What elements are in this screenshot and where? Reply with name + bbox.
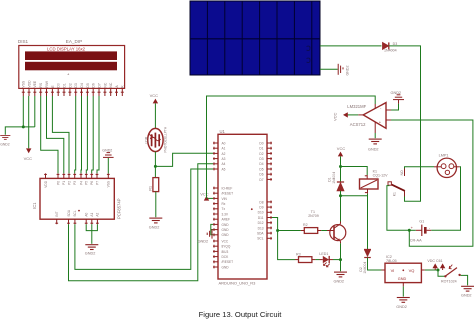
- wire divider to Arduino A2: [155, 153, 213, 166]
- svg-text:VIN: VIN: [222, 197, 228, 201]
- ground GND2 at Arduino left: [198, 229, 212, 243]
- svg-text:VSS: VSS: [22, 80, 26, 88]
- svg-text:ACS712: ACS712: [350, 122, 366, 127]
- svg-text:LMP1: LMP1: [439, 153, 449, 157]
- Arduino pin D0: [259, 141, 272, 145]
- wire VCC rail Arduino VIN to op-amp V+: [207, 96, 376, 198]
- svg-text:SDA: SDA: [67, 209, 71, 216]
- svg-text:D11: D11: [258, 216, 264, 220]
- wire photocell to R1: [154, 152, 156, 178]
- svg-text:A4: A4: [222, 162, 226, 166]
- wire VSS/VEE rail to ground: [5, 127, 35, 135]
- svg-text:GND2: GND2: [0, 143, 10, 147]
- svg-text:EA_DIP: EA_DIP: [66, 39, 82, 44]
- svg-text:Figure 13. Output Circuit: Figure 13. Output Circuit: [199, 310, 283, 319]
- svg-text:A0: A0: [222, 141, 226, 145]
- svg-text:LCD DISPLAY 16x2: LCD DISPLAY 16x2: [47, 46, 86, 51]
- svg-text:2N709: 2N709: [308, 214, 319, 218]
- ground GND2 below T1: [334, 272, 348, 283]
- Arduino pin D13: [258, 226, 272, 230]
- svg-text:A2: A2: [222, 152, 226, 156]
- diode D2 1N4004: [359, 250, 371, 274]
- wire IC1 A0 A1 A2 join: [86, 224, 97, 230]
- wire RS to IC1 P0: [41, 96, 58, 173]
- Arduino pin A4: [213, 162, 226, 166]
- wire R/W to IC1 P1: [47, 96, 64, 173]
- IC1 pin SCL: [73, 210, 77, 224]
- Arduino pin D1: [259, 147, 272, 151]
- Arduino pin 8IU3: [213, 250, 228, 254]
- wire D4 to IC1 P4: [80, 96, 83, 173]
- svg-text:PCF8574P: PCF8574P: [117, 198, 122, 219]
- svg-text:Tx: Tx: [222, 207, 226, 211]
- LCD pin VDD: [28, 88, 31, 96]
- Arduino pin D9: [259, 206, 272, 210]
- wire panel - to ground: [320, 68, 338, 70]
- svg-text:GND: GND: [222, 265, 230, 269]
- Arduino U1 ARDUINO_UNO_R3: [218, 129, 267, 285]
- svg-text:D9: D9: [259, 206, 263, 210]
- svg-text:D10: D10: [258, 211, 264, 215]
- wire VDC node to switch: [438, 270, 445, 276]
- IC1 pin P5: [85, 173, 89, 185]
- wire coil bottom to D2: [367, 194, 369, 250]
- svg-text:D4: D4: [80, 83, 84, 87]
- wire E to IC1 P2: [52, 96, 69, 173]
- Arduino pin D2: [259, 152, 272, 156]
- svg-text:/RESET: /RESET: [222, 260, 234, 264]
- svg-text:INT: INT: [55, 211, 59, 216]
- resistor R2: [301, 223, 321, 233]
- op-amp IN2 pin: [386, 119, 391, 121]
- svg-text:RS: RS: [39, 82, 43, 87]
- Arduino pin D12: [258, 221, 272, 225]
- svg-text:DCK: DCK: [222, 255, 230, 259]
- svg-text:GND: GND: [222, 233, 230, 237]
- Arduino pin Rx: [213, 202, 226, 206]
- svg-text:P4: P4: [79, 181, 83, 185]
- VDC supply arrows VDC C61: [427, 259, 445, 270]
- svg-text:-: -: [429, 226, 430, 230]
- LCD pin VSS: [22, 88, 25, 96]
- ground GND2 below op-amp: [368, 139, 382, 152]
- Arduino pin D7: [259, 178, 272, 182]
- wire D5 to IC1 P5: [86, 96, 87, 173]
- svg-text:GND2: GND2: [85, 252, 96, 256]
- svg-text:LED1: LED1: [319, 252, 328, 256]
- lamp LMP1: [434, 153, 460, 177]
- op-amp V+ pin: [374, 104, 376, 109]
- svg-text:D6: D6: [92, 83, 96, 87]
- svg-text:GND2: GND2: [334, 279, 345, 283]
- wire D7 to IC1 P7: [97, 96, 99, 173]
- Arduino pin Tx: [213, 207, 225, 211]
- svg-text:1N4004: 1N4004: [332, 172, 336, 184]
- LCD display DIS1 EA_DIP 16x2: [18, 39, 125, 88]
- LCD pin NC: [103, 88, 106, 96]
- Arduino pin D4: [259, 162, 272, 166]
- svg-text:NC: NC: [109, 82, 113, 87]
- switch ROT1024: [441, 265, 461, 284]
- IC1 pin P0: [56, 173, 60, 185]
- svg-text:PHOTOCELLPTH: PHOTOCELLPTH: [163, 126, 167, 152]
- wire battery+ left: [409, 229, 416, 231]
- VCC symbol above photocell: [150, 93, 159, 103]
- svg-text:GND: GND: [222, 223, 230, 227]
- wire contact pivot to battery+: [387, 186, 409, 231]
- wire D3 to relay contact NC: [389, 46, 421, 201]
- regulator IC2 78L05: [382, 255, 425, 286]
- wire IC1 SDA to Arduino A4: [69, 164, 214, 281]
- svg-text:A1: A1: [222, 147, 226, 151]
- svg-text:A5: A5: [222, 167, 226, 171]
- wire R2 to T1 base: [321, 230, 327, 232]
- Arduino pin GND: [213, 265, 229, 269]
- Arduino pin A1: [213, 147, 226, 151]
- LCD pin D2: [68, 88, 71, 96]
- svg-text:GND: GND: [398, 277, 407, 281]
- Arduino pin A5: [213, 167, 226, 171]
- ground GND2 below R1: [149, 218, 163, 229]
- Arduino pin D10: [258, 211, 272, 215]
- IC1 pin VDD: [44, 173, 48, 187]
- relay coil K1 CQ1-12V: [360, 169, 389, 193]
- svg-text:VDC C61: VDC C61: [427, 259, 442, 263]
- wire D1 to collector node: [340, 191, 342, 222]
- wire coil bottom branch: [341, 195, 368, 197]
- svg-text:VCC: VCC: [200, 191, 209, 196]
- junction battery+: [408, 229, 411, 232]
- svg-text:NO: NO: [400, 170, 404, 175]
- svg-text:VQ: VQ: [409, 268, 415, 273]
- resistor R3: [295, 252, 315, 262]
- Arduino pin D5: [259, 167, 272, 171]
- wire IC1 VSS to ground: [107, 158, 109, 173]
- wire VCC to D1: [340, 156, 342, 181]
- wire contact NO to lamp: [405, 167, 435, 169]
- svg-text:GND2: GND2: [396, 305, 407, 309]
- svg-text:3.3V: 3.3V: [222, 212, 229, 216]
- junction emitter/LED: [339, 258, 342, 261]
- svg-text:P7: P7: [95, 181, 99, 185]
- wire panel + to D3: [320, 45, 382, 47]
- svg-text:AREF: AREF: [222, 218, 231, 222]
- LCD pin D6: [92, 88, 95, 96]
- VCC symbol above D1: [337, 146, 346, 156]
- solar panel: [190, 1, 320, 75]
- svg-text:A3: A3: [222, 157, 226, 161]
- LCD pin VEE: [33, 88, 36, 96]
- ground GND2 right bottom: [461, 286, 474, 297]
- svg-text:D7: D7: [259, 178, 263, 182]
- wire D6 to IC1 P6: [92, 96, 94, 173]
- svg-text:GND2: GND2: [149, 225, 160, 229]
- svg-text:GND2: GND2: [391, 91, 402, 95]
- svg-text:R1: R1: [148, 186, 152, 191]
- wire coil top branch: [341, 167, 368, 176]
- svg-text:IC1: IC1: [32, 202, 37, 209]
- svg-text:GND2: GND2: [198, 239, 209, 243]
- IC1 pin P4: [79, 173, 83, 185]
- svg-text:D5: D5: [259, 167, 263, 171]
- wire IN1 to upper ground: [391, 104, 399, 110]
- svg-text:1N4004: 1N4004: [363, 262, 367, 274]
- ground GND2 below IC1: [85, 245, 99, 256]
- Arduino pin SCL: [257, 237, 272, 241]
- junction VSS rail: [22, 125, 25, 128]
- ground GND2 at panel (rotated): [338, 64, 349, 76]
- svg-text:P3: P3: [73, 181, 77, 185]
- LCD pin RS: [39, 88, 42, 96]
- wire A1 to ground: [91, 224, 93, 244]
- svg-text:VSS: VSS: [107, 181, 111, 187]
- svg-text:SDA: SDA: [257, 232, 264, 236]
- svg-text:8YQQ: 8YQQ: [222, 245, 231, 249]
- VCC symbol at Arduino VIN: [200, 191, 213, 200]
- relay contact K1 NO: [388, 169, 405, 197]
- wire LCD VEE down: [34, 96, 36, 127]
- Arduino pin VIN: [213, 197, 228, 201]
- svg-text:CQ1-12V: CQ1-12V: [373, 174, 389, 178]
- IC1 pin P2: [67, 173, 71, 185]
- Arduino pin A2: [213, 152, 226, 156]
- op-amp IN1 pin: [386, 109, 391, 111]
- LCD pin NC: [109, 88, 112, 96]
- svg-text:D6: D6: [259, 173, 263, 177]
- svg-text:D2: D2: [259, 152, 263, 156]
- svg-text:Rx: Rx: [222, 202, 226, 206]
- LCD pin D3: [74, 88, 77, 96]
- LCD pin R/W: [45, 88, 48, 96]
- svg-text:VCC: VCC: [337, 146, 346, 151]
- battery G1 CR-AA: [410, 219, 431, 242]
- svg-text:VCC: VCC: [222, 239, 229, 243]
- svg-text:D12: D12: [258, 221, 264, 225]
- wire D3 to IC1 P3: [75, 96, 76, 173]
- Arduino pin IO-REF: [213, 186, 232, 190]
- Arduino pin SDA: [257, 232, 272, 236]
- LED LED1: [319, 252, 333, 267]
- wire IC2 VQ out: [425, 269, 438, 271]
- IC1 pin SDA: [67, 209, 71, 224]
- svg-text:VCC: VCC: [333, 112, 338, 121]
- junction D11/R2 branch: [276, 229, 279, 232]
- wire IC1 SCL to Arduino A5: [75, 169, 213, 269]
- wire branch to R2: [278, 230, 301, 232]
- ground GND2 above IC1 VSS: [102, 148, 113, 157]
- ground GND2 right of op-amp (inverted): [391, 91, 405, 104]
- IC1 pin A0: [85, 212, 89, 224]
- svg-text:D5: D5: [86, 83, 90, 87]
- svg-text:P2: P2: [67, 181, 71, 185]
- junction divider node: [154, 165, 157, 168]
- svg-text:VDD: VDD: [44, 180, 48, 187]
- svg-text:LDR: LDR: [145, 136, 149, 143]
- IC1 pin A2: [96, 212, 100, 224]
- wire VCC to photocell: [154, 103, 156, 128]
- svg-text:GND2: GND2: [368, 148, 379, 152]
- wire IN2 to battery+ sense loop: [391, 120, 473, 246]
- Arduino pin D8: [259, 200, 272, 204]
- Arduino pin /RESET: [213, 260, 233, 264]
- svg-text:LM321MF: LM321MF: [347, 104, 366, 109]
- svg-text:SCL: SCL: [73, 210, 77, 216]
- wire lamp to battery-: [431, 167, 460, 231]
- svg-text:K1: K1: [393, 192, 397, 196]
- diode D3 1N4004: [383, 42, 398, 53]
- junction VCC/coil-top: [339, 165, 342, 168]
- ground GND2 below IC2: [396, 298, 410, 309]
- op-amp V- pin: [374, 122, 376, 133]
- svg-text:DIS1: DIS1: [18, 39, 29, 44]
- svg-text:D13: D13: [258, 226, 264, 230]
- svg-text:R2: R2: [303, 223, 308, 227]
- Arduino pin D11: [258, 216, 272, 220]
- wire Arduino GND pins join: [211, 224, 213, 234]
- svg-text:D0: D0: [57, 83, 61, 87]
- Arduino pin DCK: [213, 255, 229, 259]
- junction D1/coil-bottom: [339, 194, 342, 197]
- svg-text:R/W: R/W: [45, 80, 49, 87]
- svg-text:VCC: VCC: [150, 93, 159, 98]
- Arduino pin GND: [213, 223, 229, 227]
- Arduino pin AREF: [213, 218, 230, 222]
- wire emitter to ground: [340, 243, 342, 271]
- Arduino pin 8YQQ: [213, 245, 231, 249]
- LCD pin D1: [63, 88, 66, 96]
- svg-text:/RESET: /RESET: [222, 192, 234, 196]
- svg-text:CR-AA: CR-AA: [410, 239, 422, 243]
- svg-text:P0: P0: [56, 181, 60, 185]
- LCD pin D4: [80, 88, 83, 96]
- VCC symbol (down) at LCD VDD: [24, 148, 33, 161]
- Arduino pin 3.3V: [213, 212, 229, 216]
- svg-text:VCC: VCC: [24, 156, 33, 161]
- op-amp LM321MF / ACS712: [347, 103, 386, 129]
- svg-text:D3: D3: [74, 83, 78, 87]
- svg-text:P1: P1: [62, 181, 66, 185]
- wire LCD VDD down: [28, 96, 30, 148]
- svg-text:D8: D8: [259, 200, 263, 204]
- svg-text:D1: D1: [62, 83, 66, 87]
- Arduino pin A3: [213, 157, 226, 161]
- LCD pin K: [121, 88, 124, 96]
- LCD pin D5: [86, 88, 89, 96]
- Arduino pin GND: [213, 228, 229, 232]
- svg-text:SCL: SCL: [257, 237, 263, 241]
- ground GND2 (LCD left): [0, 136, 10, 147]
- LCD pin D0: [57, 88, 60, 96]
- LCD pin D7: [98, 88, 101, 96]
- svg-text:ROT1024: ROT1024: [441, 279, 457, 283]
- svg-text:D0: D0: [259, 141, 263, 145]
- IC1 pin INT: [55, 211, 59, 224]
- svg-text:D2: D2: [68, 83, 72, 87]
- svg-text:A2: A2: [96, 212, 100, 216]
- wire R3 to LED1: [315, 259, 319, 261]
- svg-text:GND2: GND2: [345, 66, 349, 76]
- Arduino pin GND: [213, 233, 229, 237]
- svg-text:G1: G1: [419, 219, 424, 223]
- svg-text:D4: D4: [259, 162, 263, 166]
- wire R1 to ground: [155, 192, 157, 218]
- Arduino pin VCC: [213, 239, 229, 243]
- svg-text:VI: VI: [391, 268, 395, 273]
- Arduino pin /RESET: [213, 192, 233, 196]
- svg-text:VEE: VEE: [33, 80, 37, 88]
- svg-text:A0: A0: [85, 212, 89, 216]
- Arduino pin D3: [259, 157, 272, 161]
- svg-text:8IU3: 8IU3: [222, 250, 229, 254]
- svg-text:A1: A1: [90, 212, 94, 216]
- Arduino pin D6: [259, 173, 272, 177]
- svg-text:GND2: GND2: [102, 148, 112, 152]
- wire switch to ground: [461, 275, 468, 285]
- svg-text:R3: R3: [296, 252, 301, 256]
- svg-text:P6: P6: [90, 181, 94, 185]
- IC1 pin P3: [73, 173, 77, 185]
- svg-text:D7: D7: [97, 83, 101, 87]
- Arduino pin A0: [213, 141, 226, 145]
- IC1 pin A1: [90, 212, 94, 224]
- IC1 pin P1: [62, 173, 66, 185]
- photocell LDR PHOTOCELLPTH: [145, 126, 168, 152]
- IC1 pin VSS: [107, 173, 111, 187]
- wire LCD VSS down: [22, 96, 24, 127]
- IC1 pin P7: [95, 173, 99, 185]
- resistor R1: [148, 178, 158, 192]
- svg-text:D1: D1: [259, 147, 263, 151]
- svg-text:D3: D3: [259, 157, 263, 161]
- IC1 pin P6: [90, 173, 94, 185]
- op-amp output pin: [358, 114, 363, 116]
- junction VDC: [437, 269, 440, 272]
- wire IC2 GND down: [402, 286, 404, 296]
- VCC symbol at op-amp output (left): [333, 112, 359, 121]
- transistor T1 2N709: [308, 210, 346, 244]
- diode D1 1N4004 (flyback): [328, 172, 345, 191]
- I/O expander IC1 PCF8574P: [32, 178, 122, 219]
- svg-text:T1: T1: [311, 210, 315, 214]
- svg-text:VDD: VDD: [27, 80, 31, 88]
- svg-text:GND2: GND2: [461, 294, 472, 298]
- svg-text:U1: U1: [220, 129, 226, 134]
- svg-text:1N4004: 1N4004: [384, 49, 397, 53]
- svg-text:IO-REF: IO-REF: [222, 186, 233, 190]
- wire D2 to IC2 VI: [368, 258, 382, 271]
- LCD pin A: [115, 88, 118, 96]
- svg-text:GND: GND: [222, 228, 230, 232]
- wire op-amp V- to ground: [374, 133, 376, 138]
- LCD pin E: [51, 88, 54, 96]
- wire Arduino D11 feed: [272, 218, 295, 260]
- svg-text:ARDUINO_UNO_R3: ARDUINO_UNO_R3: [219, 280, 257, 285]
- wire LED1 to emitter node: [333, 259, 341, 261]
- svg-text:NC: NC: [103, 82, 107, 87]
- svg-text:P5: P5: [85, 181, 89, 185]
